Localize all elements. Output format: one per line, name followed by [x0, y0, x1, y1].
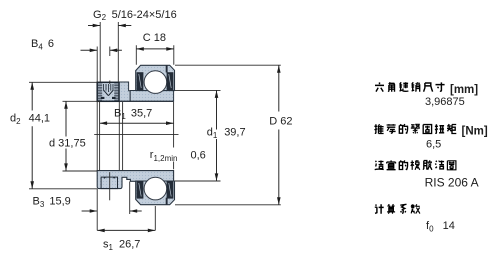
row2 title: recommended tightening torque [Nm]	[374, 124, 383, 133]
C dimension	[136, 45, 174, 65]
row3 title: suitable rubber seating ring	[375, 161, 384, 170]
B1 dimension	[100, 122, 174, 124]
thread zone hatch bands	[98, 84, 102, 100]
lubrication hole upper	[166, 65, 168, 72]
lower right seal	[167, 181, 174, 199]
upper right seal	[167, 72, 174, 90]
svg-text:C 18: C 18	[143, 32, 166, 44]
s1 extension line x155.3	[154, 206, 156, 230]
svg-text:[Nm]: [Nm]	[462, 126, 488, 138]
D extension lines	[175, 65, 281, 205]
row1 title: hex key size [mm]	[375, 82, 384, 91]
extension line ring right face x173.6	[173, 102, 175, 169]
axis centerline	[94, 134, 178, 136]
svg-text:s1 26,7: s1 26,7	[103, 238, 140, 252]
upper bore line	[97, 100, 173, 102]
row4 title: calculation factor	[375, 204, 384, 213]
d2 dimension line	[31, 82, 33, 188]
svg-text:f0 14: f0 14	[426, 220, 455, 234]
lower outer ring	[136, 181, 175, 205]
extension line screw axis x109.8	[109, 47, 111, 85]
extension line sleeve face x99.6	[99, 102, 101, 171]
G2 dimension arrows	[88, 25, 131, 27]
svg-text:39,7: 39,7	[224, 127, 245, 139]
svg-text:6,5: 6,5	[426, 138, 441, 150]
svg-text:B1 35,7: B1 35,7	[114, 107, 152, 121]
lower left seal	[137, 181, 144, 199]
svg-text:0,6: 0,6	[191, 149, 206, 161]
extension line collar right x122.6	[122, 102, 124, 171]
svg-text:RIS 206 A: RIS 206 A	[425, 175, 479, 189]
upper ball	[144, 71, 167, 94]
extension line G2 right x118.3	[117, 22, 119, 82]
lower grub screw (side view)	[101, 177, 117, 189]
svg-text:3,96875: 3,96875	[425, 96, 465, 108]
lower screw axis	[109, 172, 111, 200]
svg-text:d2 44,1: d2 44,1	[10, 112, 50, 126]
grub screw thread symbol	[104, 84, 113, 92]
s1 dimension	[97, 229, 155, 231]
svg-text:d 31,75: d 31,75	[49, 137, 86, 149]
d dimension line	[65, 101, 67, 171]
svg-text:D 62: D 62	[269, 116, 292, 128]
lower inner ring with collar (side view)	[97, 171, 173, 189]
B4 dimension arrows	[81, 49, 122, 51]
svg-text:[mm]: [mm]	[450, 84, 478, 96]
D dimension line	[278, 65, 280, 205]
B3 extension line x129.7	[129, 182, 131, 215]
svg-text:B3 15,9: B3 15,9	[33, 196, 71, 210]
d extension lines	[63, 101, 100, 171]
d2 extension lines	[29, 82, 97, 189]
upper outer ring	[136, 65, 175, 90]
B3 dimension arrows	[82, 210, 142, 212]
lubrication hole lower	[166, 198, 168, 205]
svg-text:B4 6: B4 6	[31, 38, 54, 52]
svg-text:G2 5/16-24×5/16: G2 5/16-24×5/16	[93, 9, 177, 22]
extension line boss right x119.3	[118, 102, 120, 171]
d1 dimension line	[216, 90, 218, 180]
extension line left face x97.2	[96, 47, 98, 231]
upper left seal	[137, 72, 144, 90]
grub screw boss (hatched section)	[97, 82, 119, 101]
lower ball	[144, 177, 167, 200]
upper inner ring band	[130, 91, 173, 102]
extension line G2 left x100.2	[99, 22, 101, 82]
upper inner-ring sleeve and pad	[119, 82, 130, 101]
d1 extension lines	[175, 90, 221, 181]
svg-text:r1,2min: r1,2min	[150, 149, 178, 163]
